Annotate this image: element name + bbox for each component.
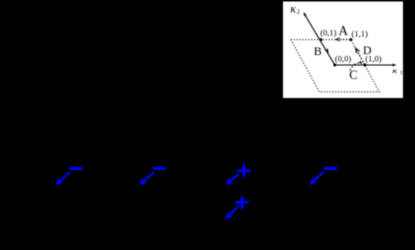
panel background [283,2,403,99]
svg-text:(0,0): (0,0) [335,54,351,64]
path A open arrowhead [336,38,340,42]
svg-text:B: B [314,44,322,58]
blue arrow 2 head [139,177,148,186]
svg-text:(0,1): (0,1) [320,28,336,38]
blue arrow 1 shaft [59,172,70,182]
svg-text:D: D [363,43,372,57]
blue minus sign 1 [69,167,82,170]
path D open arrowhead [356,48,360,53]
blue arrow 3 head [225,177,234,185]
kappa2 axis [305,15,335,65]
svg-text:κ: κ [290,1,296,15]
lattice point (0,0) [333,64,336,67]
path C dashed leader curve [350,63,362,71]
svg-text:(1,1): (1,1) [352,28,368,38]
lattice point (0,1) [319,38,322,41]
blue plus sign 5 [236,201,249,204]
kappa1 arrowhead [392,64,397,67]
path D dashed line (1,0)->(1,1) [355,47,365,65]
blue annotation arrows over (invisible) equation [55,165,337,220]
blue arrow 2 shaft [143,172,154,182]
inset panel: Brillouin-zone diagram [283,1,403,98]
svg-text:C: C [349,68,357,82]
lattice point (1,0) [363,64,366,67]
blue arrow 5 shaft [229,206,240,217]
blue arrow 1 head [55,177,64,186]
path A dashed line (1,1)->(0,1) [337,39,351,41]
svg-text:2: 2 [297,9,300,16]
svg-text:A: A [339,23,349,38]
blue arrow 4 shaft [313,172,324,182]
blue arrow 4 head [309,176,318,185]
svg-text:κ: κ [392,67,398,75]
kappa2 arrowhead [303,12,307,17]
path C leader arrowhead [358,60,362,64]
blue minus sign 2 [153,167,166,170]
blue minus sign 4 [324,167,337,170]
blue arrow 3 shaft [229,174,239,182]
path B arrowhead [324,48,328,54]
lattice point (1,1) [349,38,352,41]
svg-text:1: 1 [400,70,403,76]
kappa1 axis [335,64,395,66]
Brillouin zone boundary (dotted parallelogram) [291,40,379,92]
blue plus sign 3 [237,169,250,172]
blue arrow 5 head [225,211,234,220]
